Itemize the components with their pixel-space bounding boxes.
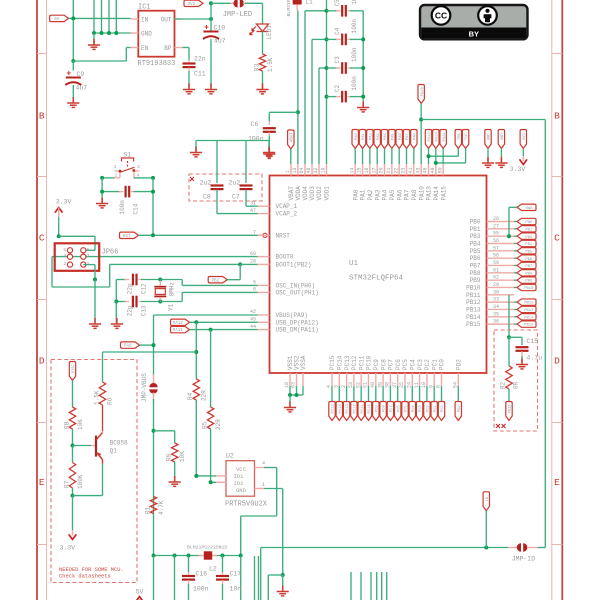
svg-text:6: 6 (63, 247, 66, 253)
solder jumper JMP-ID (508, 547, 517, 549)
ground (111, 318, 123, 328)
svg-text:21: 21 (386, 167, 392, 173)
svg-text:NRST: NRST (276, 232, 291, 239)
wire PA10 to JMP-ID (421, 119, 545, 121)
svg-text:PC5: PC5 (405, 405, 409, 413)
svg-text:3: 3 (137, 164, 140, 170)
svg-text:PB1: PB1 (525, 228, 533, 232)
capacitor C17 (222, 556, 224, 573)
svg-text:47: 47 (250, 208, 256, 214)
svg-text:VCAP_1: VCAP_1 (276, 203, 298, 210)
svg-text:L1: L1 (306, 0, 314, 6)
svg-text:R6: R6 (107, 397, 114, 405)
svg-text:41: 41 (408, 167, 414, 173)
VBAT flag (288, 130, 294, 149)
svg-text:C11: C11 (194, 71, 206, 78)
svg-text:PB7: PB7 (525, 265, 532, 269)
ground (89, 318, 101, 328)
svg-text:C12: C12 (141, 283, 148, 294)
svg-text:1: 1 (262, 482, 265, 488)
svg-text:2: 2 (115, 173, 118, 179)
svg-text:PC13: PC13 (346, 403, 350, 413)
capacitor C11 (182, 47, 189, 49)
svg-text:IC1: IC1 (138, 4, 151, 12)
svg-text:4: 4 (326, 385, 332, 388)
wires crystal left (115, 280, 117, 302)
svg-text:BLM21PG300SN1D: BLM21PG300SN1D (286, 0, 292, 17)
svg-text:PB12: PB12 (524, 302, 534, 306)
svg-text:PD2: PD2 (458, 405, 462, 413)
svg-text:PA10: PA10 (421, 86, 425, 96)
svg-text:25: 25 (399, 382, 405, 388)
flag PB3 (514, 235, 517, 237)
svg-text:GND: GND (488, 133, 492, 141)
svg-text:PB10: PB10 (524, 287, 534, 291)
svg-text:31: 31 (250, 200, 256, 206)
svg-text:CC: CC (435, 11, 447, 21)
svg-text:100n: 100n (193, 586, 209, 593)
svg-text:DISC: DISC (72, 365, 76, 373)
svg-text:BOOT0: BOOT0 (276, 254, 294, 261)
svg-text:52: 52 (355, 382, 361, 388)
svg-text:61: 61 (493, 267, 499, 273)
svg-text:PA15: PA15 (440, 186, 447, 201)
svg-text:5V: 5V (136, 589, 144, 596)
flag PC7 (389, 386, 391, 402)
svg-text:22p: 22p (127, 283, 134, 294)
svg-text:C5: C5 (334, 0, 341, 6)
VSS wiring (289, 386, 291, 395)
svg-text:PB3: PB3 (525, 236, 533, 240)
flag PC15 (331, 386, 333, 402)
connector JP66 (55, 243, 99, 270)
svg-text:PC7: PC7 (390, 405, 394, 412)
flag GND (485, 130, 491, 149)
svg-text:C4: C4 (334, 27, 341, 35)
crystal Y1 (158, 278, 162, 282)
gnd rail above (196, 140, 269, 142)
flag PA15 (440, 130, 446, 149)
svg-text:PA14: PA14 (435, 131, 439, 141)
svg-text:PA8: PA8 (411, 189, 418, 200)
flag PB1 (514, 228, 517, 230)
ground (205, 84, 217, 94)
svg-text:8: 8 (436, 385, 442, 388)
svg-text:1.5K: 1.5K (267, 57, 274, 72)
ground (169, 476, 181, 486)
svg-text:35: 35 (493, 311, 499, 317)
svg-text:PA7: PA7 (404, 189, 411, 200)
node OUT (175, 18, 212, 20)
svg-text:PC1: PC1 (434, 405, 438, 413)
ferrite bead L1 (293, 0, 302, 5)
svg-text:GND: GND (501, 133, 505, 141)
svg-text:PB6: PB6 (525, 258, 533, 262)
wire OSC_IN (160, 279, 182, 281)
svg-text:B: B (39, 111, 45, 122)
svg-text:3: 3 (87, 253, 90, 259)
svg-text:42: 42 (250, 309, 256, 315)
svg-text:4u7: 4u7 (214, 38, 226, 45)
svg-text:JP66: JP66 (102, 249, 119, 257)
svg-text:2u2: 2u2 (200, 180, 212, 187)
svg-text:PC13: PC13 (344, 355, 351, 370)
svg-text:7: 7 (253, 230, 256, 236)
flag PC1 (433, 386, 435, 402)
capacitor C4 (312, 38, 327, 40)
svg-text:PC4: PC4 (410, 359, 417, 370)
svg-text:2: 2 (63, 261, 66, 267)
svg-text:PB8: PB8 (470, 270, 481, 277)
svg-text:PA4: PA4 (382, 189, 389, 200)
flag TCK (462, 130, 468, 149)
flag PA7 (403, 130, 409, 149)
svg-text:16: 16 (364, 167, 370, 173)
svg-text:5: 5 (253, 280, 256, 286)
svg-text:5V: 5V (54, 18, 60, 22)
svg-text:50: 50 (437, 167, 443, 173)
svg-text:4.7u: 4.7u (527, 355, 543, 362)
svg-text:R3: R3 (254, 63, 261, 71)
svg-text:PB8: PB8 (525, 272, 533, 276)
svg-text:22: 22 (393, 167, 399, 173)
svg-text:C2: C2 (334, 84, 341, 92)
PB2 flag (208, 277, 227, 283)
flag PC3 (419, 386, 421, 402)
svg-text:R8: R8 (63, 421, 70, 429)
svg-text:PA1: PA1 (360, 189, 367, 200)
svg-text:E: E (39, 477, 45, 488)
wire U2 VCC to 5V rail (264, 467, 277, 469)
flag 3V3 + supply arrow (520, 130, 526, 149)
dashed box C15 R2 (494, 330, 538, 431)
svg-text:NEEDED FOR SOME MCU.: NEEDED FOR SOME MCU. (59, 567, 124, 573)
svg-text:PC14: PC14 (339, 403, 343, 413)
svg-text:SWO: SWO (525, 207, 533, 211)
wires around S1 (102, 177, 114, 179)
flag PB10 (514, 286, 517, 288)
svg-text:58: 58 (493, 253, 499, 259)
flag PC0 (441, 386, 443, 402)
wire BOOT0 (52, 256, 258, 258)
svg-text:C7: C7 (232, 194, 240, 201)
ground (96, 198, 108, 208)
decoupling capacitors C2-C5 (326, 0, 328, 164)
ferrite bead L2 (199, 555, 204, 557)
svg-text:PC1: PC1 (431, 359, 438, 370)
svg-text:C14: C14 (133, 203, 140, 214)
svg-text:100K: 100K (77, 474, 84, 489)
svg-text:GND: GND (236, 487, 247, 494)
svg-text:PA0: PA0 (352, 189, 359, 200)
svg-text:10: 10 (421, 382, 427, 388)
svg-text:100n: 100n (351, 47, 358, 62)
svg-text:PA13: PA13 (428, 131, 432, 141)
flag PC2 (426, 386, 428, 402)
flag PC13 (346, 386, 348, 402)
svg-text:10K: 10K (77, 419, 84, 430)
svg-text:PA2: PA2 (369, 133, 373, 141)
svg-text:PA6: PA6 (399, 133, 403, 141)
capacitor C8 (216, 141, 218, 184)
svg-text:C8: C8 (203, 194, 211, 201)
svg-text:PC5: PC5 (402, 359, 409, 370)
ground (256, 84, 268, 94)
svg-text:R2: R2 (500, 381, 507, 389)
wires U2 (196, 475, 216, 477)
svg-text:PB9: PB9 (470, 277, 481, 284)
svg-text:PC11: PC11 (361, 403, 365, 413)
svg-text:48: 48 (306, 167, 312, 173)
svg-text:PB14: PB14 (524, 316, 534, 320)
svg-text:18: 18 (284, 382, 290, 388)
svg-text:3.3V: 3.3V (510, 166, 526, 173)
svg-text:100n: 100n (351, 0, 358, 5)
svg-text:15: 15 (357, 167, 363, 173)
svg-text:PC4: PC4 (412, 405, 416, 413)
svg-text:4: 4 (262, 461, 265, 467)
svg-text:PC8: PC8 (380, 359, 387, 370)
resistor R4 (193, 379, 199, 400)
svg-text:33: 33 (493, 297, 499, 303)
svg-text:E: E (554, 477, 560, 488)
svg-text:PB5: PB5 (470, 248, 481, 255)
svg-text:PC0: PC0 (441, 405, 445, 413)
svg-text:51: 51 (363, 382, 369, 388)
svg-text:C16: C16 (196, 571, 208, 578)
ground (67, 97, 79, 107)
svg-text:60: 60 (250, 251, 256, 257)
svg-text:PB6: PB6 (470, 255, 481, 262)
svg-text:64: 64 (299, 167, 305, 173)
resistor R2 (508, 337, 510, 366)
capacitor C9 (72, 61, 74, 71)
svg-text:PA8: PA8 (413, 133, 417, 141)
svg-text:0R: 0R (513, 381, 520, 389)
flag PC5 (404, 386, 406, 402)
svg-text:8MHz: 8MHz (169, 281, 176, 296)
ground (93, 33, 95, 45)
flag PC6 (397, 386, 399, 402)
flag PB11 (506, 402, 512, 421)
svg-text:C: C (554, 233, 560, 244)
svg-text:54: 54 (453, 382, 459, 388)
ground (183, 84, 195, 94)
svg-text:4u7: 4u7 (76, 85, 88, 92)
svg-text:PC12: PC12 (354, 403, 358, 413)
svg-text:PB9: PB9 (525, 280, 533, 284)
resistor R6 (194, 350, 198, 354)
svg-text:VSSA: VSSA (300, 355, 307, 370)
capacitor C3 (319, 67, 327, 69)
svg-text:STM32FLQFP64: STM32FLQFP64 (349, 275, 404, 283)
svg-text:BLM21PG221SN1D: BLM21PG221SN1D (187, 545, 227, 551)
svg-text:10n: 10n (230, 586, 242, 593)
svg-text:2: 2 (341, 385, 347, 388)
svg-text:63: 63 (291, 382, 297, 388)
svg-text:PC10: PC10 (368, 403, 372, 413)
svg-text:PB13: PB13 (524, 309, 534, 313)
capacitor C14 (102, 191, 120, 193)
svg-text:49: 49 (430, 167, 436, 173)
gnd verticals into IC1 GND (93, 0, 95, 33)
svg-text:PC3: PC3 (417, 359, 424, 370)
flag PA1 (359, 130, 365, 149)
svg-text:TMS: TMS (458, 133, 462, 141)
svg-text:B: B (554, 111, 560, 122)
capacitor C15 (509, 336, 522, 338)
solder jumper JMP-VBUS (153, 374, 155, 384)
svg-text:100n: 100n (119, 200, 126, 215)
svg-text:VDD1: VDD1 (324, 186, 331, 201)
svg-text:VBAT: VBAT (290, 132, 294, 143)
svg-text:100n: 100n (248, 136, 264, 143)
svg-text:22p: 22p (127, 305, 134, 316)
flag PB7 (514, 264, 517, 266)
verticals below rail (153, 556, 155, 600)
wire PB11 to C15/R2 (508, 295, 510, 338)
svg-text:PD2: PD2 (456, 359, 463, 370)
resistor R8 (69, 407, 75, 429)
svg-text:32: 32 (313, 167, 319, 173)
svg-text:RST: RST (123, 235, 131, 239)
svg-text:20: 20 (379, 167, 385, 173)
svg-text:5: 5 (87, 247, 90, 253)
svg-text:56: 56 (493, 238, 499, 244)
svg-text:PA3: PA3 (374, 189, 381, 200)
svg-text:PB13: PB13 (466, 306, 481, 313)
svg-text:22n: 22n (194, 56, 206, 63)
flag ID (483, 492, 489, 511)
5V rail (154, 555, 203, 557)
svg-text:USB_DP(PA12): USB_DP(PA12) (276, 319, 319, 326)
svg-text:PA13: PA13 (426, 186, 433, 201)
capacitor C12 (116, 279, 126, 281)
svg-text:59: 59 (493, 260, 499, 266)
resistor R3 (259, 54, 265, 71)
svg-text:38: 38 (385, 382, 391, 388)
svg-text:36: 36 (493, 319, 499, 325)
svg-text:23: 23 (401, 167, 407, 173)
svg-text:PA5: PA5 (389, 189, 396, 200)
svg-text:53: 53 (348, 382, 354, 388)
svg-text:PC7: PC7 (388, 359, 395, 370)
transistor Q1 BC858 (73, 445, 92, 447)
resistor R1 4.7K (150, 497, 156, 514)
svg-text:13: 13 (292, 167, 298, 173)
svg-text:C13: C13 (141, 305, 148, 316)
svg-text:EN: EN (141, 45, 149, 52)
dashed box C7 C8 (189, 174, 262, 201)
svg-text:VDD2: VDD2 (316, 186, 323, 201)
svg-text:19: 19 (321, 167, 327, 173)
svg-text:10K: 10K (179, 451, 186, 462)
CC-BY badge (420, 5, 528, 39)
svg-text:VDDA: VDDA (295, 186, 302, 201)
resistor R5 (207, 407, 213, 429)
svg-text:VCC: VCC (236, 466, 247, 473)
svg-text:C9: C9 (77, 71, 85, 78)
wire USB_DP (171, 319, 190, 325)
flag PC14 (338, 386, 340, 402)
svg-text:VDD3: VDD3 (309, 186, 316, 201)
EN tie to 5V (73, 60, 126, 62)
svg-text:24: 24 (407, 382, 413, 388)
svg-text:U1: U1 (349, 260, 359, 268)
svg-text:RT9193833: RT9193833 (138, 60, 176, 68)
wire 5V to IN (69, 17, 131, 19)
flag PA13 (425, 130, 431, 149)
long wire bottom (261, 547, 509, 549)
wire to R9 (152, 429, 156, 433)
svg-text:JMP-VBUS: JMP-VBUS (141, 373, 148, 402)
flag PB14 (514, 316, 517, 318)
svg-text:PB15: PB15 (524, 324, 534, 328)
svg-text:BP: BP (164, 45, 172, 52)
svg-text:PB2: PB2 (212, 279, 220, 283)
flag PB6 (514, 257, 517, 259)
svg-text:PC11: PC11 (358, 355, 365, 370)
svg-text:PA3: PA3 (377, 133, 381, 141)
svg-text:2u2: 2u2 (229, 180, 241, 187)
flag PB13 (514, 308, 517, 310)
svg-text:PB11: PB11 (466, 292, 481, 299)
svg-text:PA12: PA12 (173, 322, 184, 326)
svg-text:40: 40 (370, 382, 376, 388)
capacitor C13 (116, 301, 126, 303)
svg-text:PC2: PC2 (424, 359, 431, 370)
svg-text:PB10: PB10 (466, 284, 481, 291)
svg-text:PC6: PC6 (397, 405, 401, 413)
LED1 (262, 3, 264, 24)
svg-text:D: D (554, 356, 560, 367)
svg-text:PA0: PA0 (355, 133, 359, 141)
svg-text:PRTR5V0U2X: PRTR5V0U2X (225, 501, 268, 509)
svg-text:22R: 22R (215, 419, 222, 430)
svg-text:PA11: PA11 (173, 329, 184, 333)
ground (357, 102, 369, 112)
flag PA4 (381, 130, 387, 149)
svg-text:Q1: Q1 (110, 448, 118, 455)
dashed box disconnect (51, 360, 137, 583)
svg-text:IO2: IO2 (234, 480, 244, 487)
capacitor C16 (188, 556, 190, 573)
svg-text:37: 37 (392, 382, 398, 388)
svg-text:PC12: PC12 (351, 355, 358, 370)
svg-text:R9: R9 (166, 453, 173, 461)
svg-text:PB14: PB14 (466, 314, 481, 321)
flag PC12 (353, 386, 355, 402)
flag PA5 (389, 130, 395, 149)
svg-text:OSC_OUT(PH1): OSC_OUT(PH1) (276, 289, 319, 296)
svg-text:27: 27 (493, 223, 499, 229)
wire JP66 pin1 to gnd (94, 265, 96, 280)
svg-text:L2: L2 (209, 566, 217, 573)
wire USB_DM (171, 326, 190, 332)
svg-text:LED1: LED1 (266, 25, 273, 40)
svg-text:30: 30 (493, 289, 499, 295)
svg-text:R5: R5 (201, 421, 208, 429)
svg-text:PC2: PC2 (427, 405, 431, 413)
svg-text:PC15: PC15 (329, 355, 336, 370)
svg-text:PA4: PA4 (384, 133, 388, 141)
flag PA2 (367, 130, 373, 149)
flag PC10 (368, 386, 370, 402)
flag PD2 (457, 386, 459, 402)
USB connector verticals (254, 556, 256, 600)
svg-text:43: 43 (415, 167, 421, 173)
wire NRST (139, 234, 263, 236)
